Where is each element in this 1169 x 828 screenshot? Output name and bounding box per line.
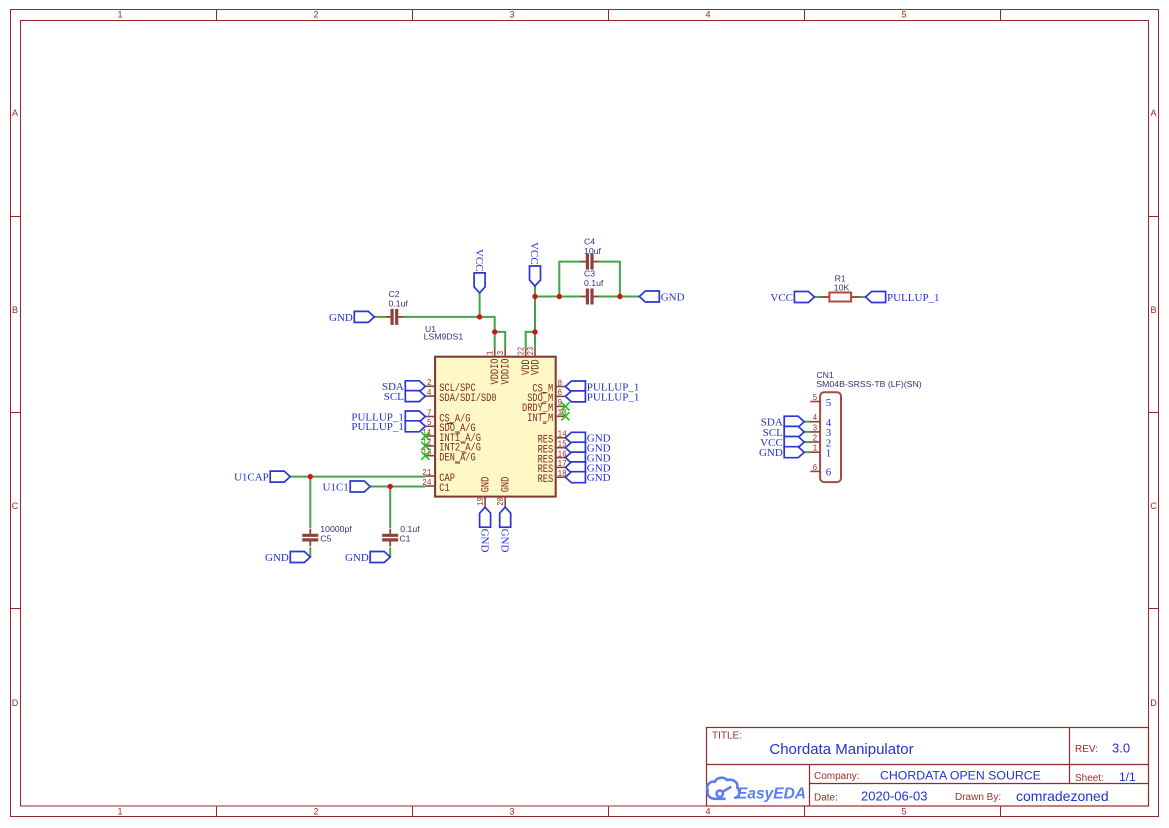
wire to pin 1 bbox=[494, 332, 496, 348]
wire U1CAP to pin 21 bbox=[290, 476, 425, 478]
pin 13 DEN_A/G bbox=[421, 447, 475, 465]
junction C4 left bbox=[557, 294, 562, 299]
ground flag pin19 bbox=[478, 507, 490, 552]
pin 15 RES bbox=[538, 439, 567, 457]
net flag PULLUP_1 pin5 bbox=[351, 421, 425, 433]
svg-text:REV:: REV: bbox=[1075, 744, 1098, 755]
wire VCC to node bbox=[479, 293, 481, 317]
svg-text:VCC: VCC bbox=[473, 249, 485, 272]
power flag VCC R1 bbox=[770, 292, 814, 304]
net flag SCL CN1 bbox=[763, 426, 805, 438]
capacitor C5 bbox=[302, 529, 318, 547]
svg-text:3: 3 bbox=[509, 10, 514, 20]
power flag VCC CN1 bbox=[760, 437, 804, 449]
svg-text:U1C1: U1C1 bbox=[323, 481, 349, 493]
net flag U1CAP bbox=[234, 471, 290, 483]
svg-text:VDD: VDD bbox=[530, 359, 542, 375]
svg-text:2: 2 bbox=[313, 807, 318, 817]
junction C4 right bbox=[617, 294, 622, 299]
pin 10 INT_M bbox=[527, 407, 569, 425]
capacitor C1 bbox=[382, 529, 398, 547]
svg-text:C1: C1 bbox=[439, 483, 449, 495]
svg-text:2020-06-03: 2020-06-03 bbox=[861, 789, 928, 804]
wire GND to C2 bbox=[374, 316, 386, 318]
pin 6 SDO_M bbox=[527, 387, 565, 405]
pin 1 VDDIO bbox=[485, 348, 502, 385]
ground flag pin16 bbox=[565, 452, 610, 464]
svg-text:6: 6 bbox=[826, 467, 832, 479]
label CN1 SM04B-SRSS-TB bbox=[816, 370, 921, 389]
svg-text:GND: GND bbox=[498, 529, 510, 553]
svg-text:GND: GND bbox=[478, 529, 490, 553]
svg-text:D: D bbox=[1150, 698, 1157, 708]
svg-text:5: 5 bbox=[813, 392, 818, 403]
net flag SDA CN1 bbox=[761, 416, 804, 428]
CN1 pin 2 bbox=[810, 432, 831, 449]
svg-text:4: 4 bbox=[705, 807, 710, 817]
svg-text:4: 4 bbox=[705, 10, 710, 20]
power flag VCC 2 bbox=[528, 242, 540, 286]
junction VDDIO bbox=[492, 329, 497, 334]
wire to pin 3 bbox=[495, 332, 506, 348]
wire C2 to VDDIO node bbox=[403, 317, 495, 332]
svg-text:Chordata Manipulator: Chordata Manipulator bbox=[769, 741, 913, 758]
svg-text:10uf: 10uf bbox=[584, 246, 601, 256]
svg-text:RES: RES bbox=[538, 474, 554, 486]
ground flag C1 bbox=[345, 552, 390, 564]
svg-text:0.1uf: 0.1uf bbox=[400, 524, 420, 534]
svg-text:C2: C2 bbox=[389, 289, 400, 299]
ground flag pin15 bbox=[565, 442, 610, 454]
svg-text:PULLUP_1: PULLUP_1 bbox=[587, 391, 640, 403]
pin 17 RES bbox=[538, 458, 567, 476]
svg-text:GND: GND bbox=[587, 472, 611, 484]
svg-text:10K: 10K bbox=[834, 283, 850, 293]
power flag VCC 1 bbox=[473, 249, 485, 293]
ground flag C2 bbox=[329, 311, 374, 323]
svg-text:C5: C5 bbox=[320, 533, 331, 543]
junction VCC2 bbox=[532, 294, 537, 299]
svg-text:INT_M: INT_M bbox=[527, 413, 553, 425]
wire VCC to CN1 bbox=[804, 441, 811, 443]
ground flag pin17 bbox=[565, 462, 610, 474]
svg-text:0.1uf: 0.1uf bbox=[389, 299, 409, 309]
svg-text:GND: GND bbox=[329, 312, 353, 324]
label C1 value bbox=[399, 524, 420, 544]
svg-text:4: 4 bbox=[427, 387, 432, 398]
svg-text:C3: C3 bbox=[584, 269, 595, 279]
net flag U1C1 bbox=[323, 481, 371, 493]
svg-text:23: 23 bbox=[525, 346, 536, 355]
wire down to C1 bbox=[389, 487, 391, 528]
resistor R1 bbox=[821, 274, 860, 302]
wire to pin 22 bbox=[526, 332, 535, 348]
pin name overline marks bbox=[447, 393, 546, 463]
svg-text:GND: GND bbox=[759, 447, 783, 459]
pin 2 SCL/SPC bbox=[425, 377, 476, 395]
wire VCC2 down bbox=[534, 286, 536, 297]
pin 21 CAP bbox=[422, 467, 455, 485]
svg-text:2: 2 bbox=[313, 10, 318, 20]
CN1 pin 6 bbox=[810, 462, 831, 479]
svg-text:VCC: VCC bbox=[770, 292, 793, 304]
svg-text:13: 13 bbox=[422, 447, 431, 458]
svg-text:C1: C1 bbox=[399, 533, 410, 543]
svg-text:3.0: 3.0 bbox=[1112, 741, 1130, 756]
wire R1 to PULLUP_1 bbox=[860, 296, 866, 298]
svg-text:U1CAP: U1CAP bbox=[234, 472, 269, 484]
IC U1 LSM9DS1 body bbox=[435, 357, 556, 497]
svg-text:GND: GND bbox=[501, 477, 513, 493]
pin 3 VDDIO bbox=[495, 348, 512, 385]
svg-text:3: 3 bbox=[495, 350, 506, 355]
ground flag C5 bbox=[265, 552, 310, 564]
CN1 pin 1 bbox=[810, 443, 831, 460]
junction C1 bbox=[388, 484, 393, 489]
pin 14 RES bbox=[538, 429, 567, 447]
ground flag pin14 bbox=[565, 432, 610, 444]
svg-text:GND: GND bbox=[345, 552, 369, 564]
svg-text:10000pf: 10000pf bbox=[320, 524, 352, 534]
svg-text:Date:: Date: bbox=[814, 792, 838, 803]
svg-text:6: 6 bbox=[813, 462, 818, 473]
junction VCC/C2 bbox=[477, 314, 482, 319]
svg-text:C: C bbox=[1150, 501, 1157, 511]
label C5 value bbox=[320, 524, 352, 544]
svg-text:PULLUP_1: PULLUP_1 bbox=[351, 421, 404, 433]
pin 23 VDD bbox=[525, 346, 542, 375]
pin 22 VDD bbox=[516, 346, 533, 375]
svg-text:VCC: VCC bbox=[528, 242, 540, 265]
ground flag pin18 bbox=[565, 472, 610, 484]
capacitor C2 bbox=[386, 309, 404, 325]
svg-text:19: 19 bbox=[475, 497, 486, 506]
wire C3 to GND bbox=[598, 296, 639, 298]
wire VCC node down bbox=[534, 297, 536, 332]
svg-text:C: C bbox=[12, 501, 19, 511]
pin 5 SDO_A/G bbox=[425, 417, 475, 435]
connector CN1 body bbox=[820, 392, 841, 482]
svg-text:A: A bbox=[12, 108, 18, 118]
wire VCC to R1 bbox=[814, 296, 821, 298]
svg-text:1: 1 bbox=[826, 448, 832, 460]
CN1 pin 4 bbox=[810, 412, 831, 429]
CN1 pin 3 bbox=[810, 422, 831, 439]
svg-text:LSM9DS1: LSM9DS1 bbox=[424, 332, 464, 342]
svg-text:1: 1 bbox=[813, 443, 818, 454]
wire U1C1 to pin 24 bbox=[370, 486, 425, 488]
label U1 LSM9DS1 bbox=[424, 324, 464, 342]
wire up to C4 bbox=[559, 262, 581, 297]
svg-text:5: 5 bbox=[826, 397, 832, 409]
pin 8 CS_M bbox=[532, 377, 565, 395]
svg-text:20: 20 bbox=[495, 497, 506, 506]
label C4 value bbox=[584, 237, 601, 257]
pin 7 CS_A/G bbox=[425, 407, 470, 425]
svg-text:0.1uf: 0.1uf bbox=[584, 278, 604, 288]
svg-text:C4: C4 bbox=[584, 237, 595, 247]
wire down to C5 bbox=[309, 477, 311, 528]
svg-text:B: B bbox=[12, 305, 18, 315]
svg-text:Company:: Company: bbox=[814, 771, 860, 782]
junction CAP/C5 bbox=[308, 474, 313, 479]
svg-text:VDDIO: VDDIO bbox=[501, 359, 513, 385]
net flag SDA bbox=[382, 381, 425, 393]
svg-text:TITLE:: TITLE: bbox=[712, 731, 742, 742]
pin 11 INT1_A/G bbox=[421, 427, 481, 445]
pin 16 RES bbox=[538, 448, 567, 466]
wire GND to CN1 bbox=[804, 451, 811, 453]
net flag PULLUP_1 pin6 bbox=[565, 391, 639, 403]
svg-text:GND: GND bbox=[661, 291, 685, 303]
wire SCL to CN1 bbox=[804, 431, 811, 433]
ground flag C3 bbox=[639, 291, 684, 303]
label C3 value bbox=[584, 269, 604, 289]
net flag PULLUP_1 R1 bbox=[866, 292, 940, 304]
capacitor C3 bbox=[581, 289, 599, 305]
pin 24 C1 bbox=[422, 477, 449, 495]
pin 12 INT2_A/G bbox=[421, 437, 481, 455]
net flag PULLUP_1 pin8 bbox=[565, 381, 639, 393]
svg-text:1: 1 bbox=[485, 350, 496, 355]
pin 18 RES bbox=[538, 468, 567, 486]
net flag SCL bbox=[384, 391, 426, 403]
svg-text:EasyEDA: EasyEDA bbox=[737, 786, 806, 803]
svg-text:SM04B-SRSS-TB (LF)(SN): SM04B-SRSS-TB (LF)(SN) bbox=[816, 379, 921, 389]
svg-text:1: 1 bbox=[117, 807, 122, 817]
svg-text:5: 5 bbox=[901, 10, 906, 20]
pin 20 GND bbox=[495, 477, 512, 508]
svg-text:5: 5 bbox=[901, 807, 906, 817]
svg-text:24: 24 bbox=[422, 477, 431, 488]
svg-text:B: B bbox=[1150, 305, 1156, 315]
pin 4 SDA/SDI/SD0 bbox=[425, 387, 496, 405]
svg-text:Sheet:: Sheet: bbox=[1075, 773, 1104, 784]
wire to pin 23 bbox=[534, 332, 536, 348]
svg-text:A: A bbox=[1150, 108, 1156, 118]
wire node to C3 bbox=[535, 296, 581, 298]
ground flag GND CN1 bbox=[759, 447, 804, 459]
svg-text:1/1: 1/1 bbox=[1119, 770, 1136, 784]
svg-text:1: 1 bbox=[117, 10, 122, 20]
label C2 value bbox=[389, 289, 409, 309]
svg-text:PULLUP_1: PULLUP_1 bbox=[887, 292, 940, 304]
net flag PULLUP_1 pin7 bbox=[351, 411, 425, 423]
ground flag pin20 bbox=[498, 507, 510, 552]
svg-text:3: 3 bbox=[509, 807, 514, 817]
wire C4 down bbox=[598, 262, 620, 297]
svg-text:Drawn By:: Drawn By: bbox=[955, 792, 1001, 803]
svg-text:D: D bbox=[12, 698, 19, 708]
CN1 pin 5 bbox=[810, 392, 831, 409]
svg-text:GND: GND bbox=[481, 477, 493, 493]
svg-text:CHORDATA OPEN SOURCE: CHORDATA OPEN SOURCE bbox=[880, 768, 1041, 782]
wire C1 to GND bbox=[389, 548, 391, 558]
svg-text:SCL: SCL bbox=[384, 391, 404, 403]
svg-text:comradezoned: comradezoned bbox=[1016, 788, 1109, 804]
pin 19 GND bbox=[475, 477, 492, 508]
junction VDD bbox=[532, 329, 537, 334]
svg-text:SDA/SDI/SD0: SDA/SDI/SD0 bbox=[439, 393, 496, 405]
svg-text:GND: GND bbox=[265, 552, 289, 564]
wire C5 to GND bbox=[309, 548, 311, 558]
wire SDA to CN1 bbox=[804, 421, 811, 423]
capacitor C4 bbox=[581, 254, 599, 270]
pin 9 DRDY_M bbox=[522, 397, 570, 415]
